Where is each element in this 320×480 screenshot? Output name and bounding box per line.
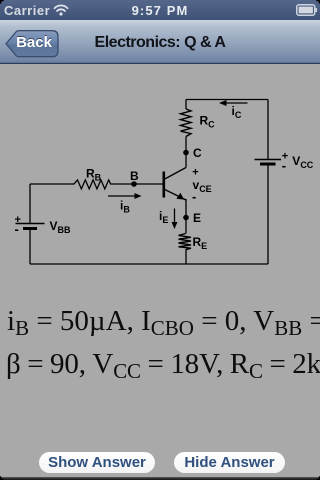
svg-text:E: E <box>193 211 201 225</box>
svg-text:RC: RC <box>200 114 216 130</box>
svg-text:VBB: VBB <box>50 219 72 235</box>
svg-text:VCC: VCC <box>292 154 314 170</box>
svg-text:iB: iB <box>120 199 130 215</box>
svg-text:iE: iE <box>159 209 168 225</box>
svg-text:RE: RE <box>193 235 208 251</box>
svg-text:B: B <box>130 169 139 183</box>
svg-text:RB: RB <box>86 167 102 183</box>
svg-text:iC: iC <box>232 104 242 120</box>
svg-text:-: - <box>15 222 19 237</box>
svg-text:-: - <box>192 189 196 204</box>
svg-text:C: C <box>193 146 202 160</box>
svg-text:+: + <box>192 167 198 179</box>
svg-text:-: - <box>282 158 286 173</box>
